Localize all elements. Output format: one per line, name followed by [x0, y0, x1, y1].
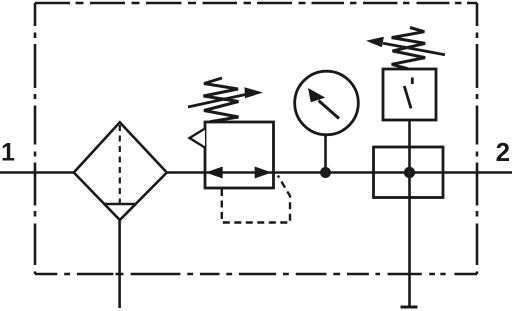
svg-text:2: 2	[496, 137, 510, 167]
svg-text:1: 1	[1, 139, 15, 167]
